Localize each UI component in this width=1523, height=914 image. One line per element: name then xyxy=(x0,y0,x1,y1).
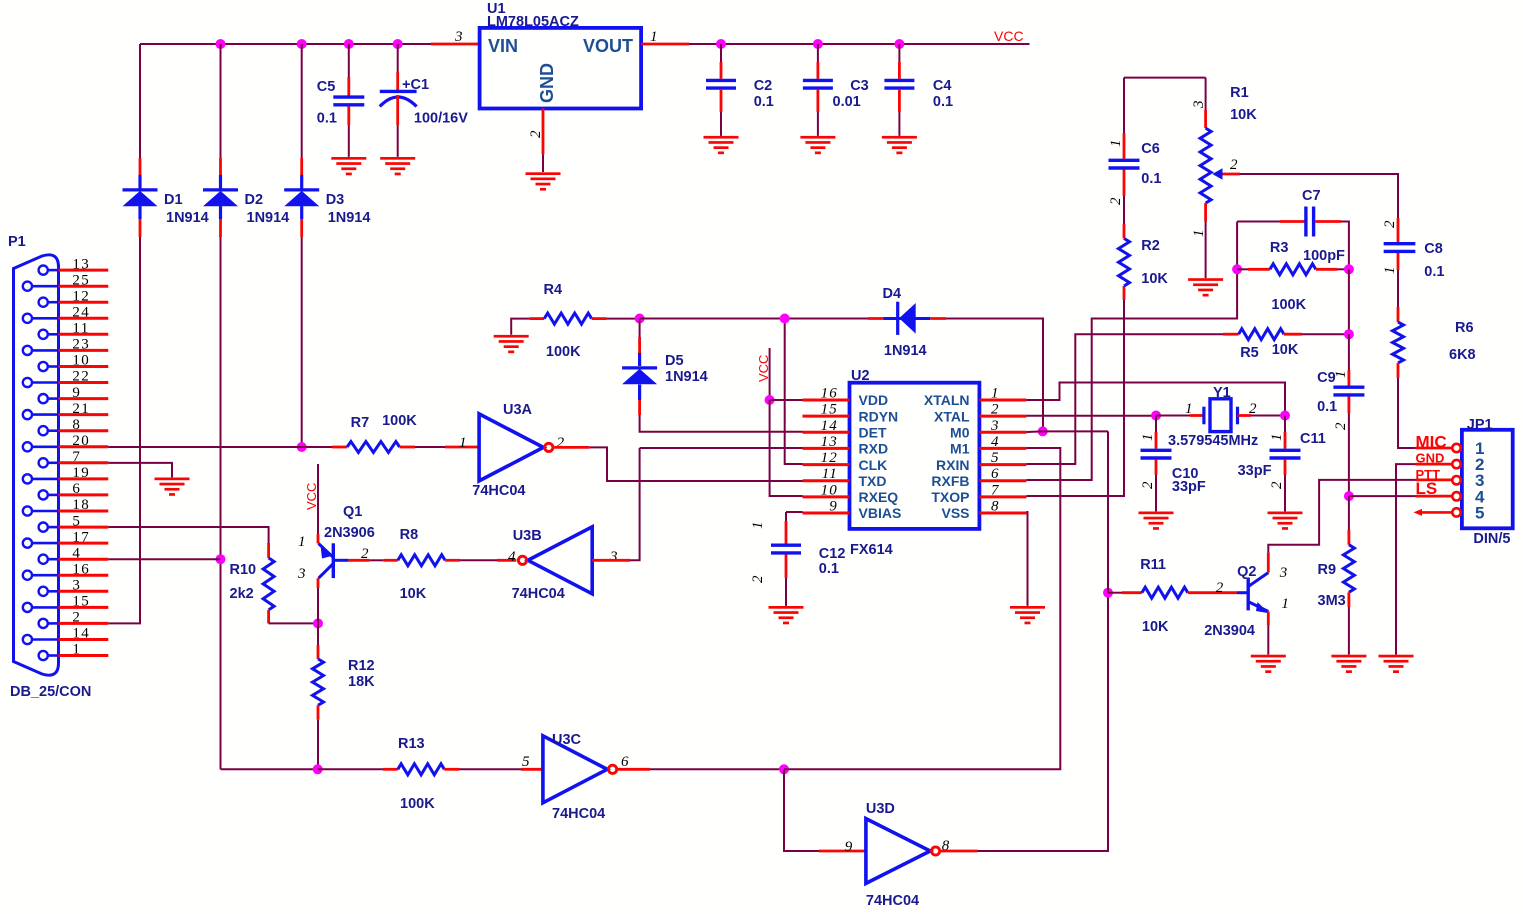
svg-text:3: 3 xyxy=(1279,565,1289,581)
svg-text:C3: C3 xyxy=(850,78,869,94)
svg-text:100K: 100K xyxy=(546,344,581,360)
junction Q1 collector node xyxy=(313,618,323,628)
svg-text:74HC04: 74HC04 xyxy=(512,586,565,602)
wire crystal left to C10 xyxy=(1155,416,1157,449)
wire C9 to LS node xyxy=(1348,397,1351,497)
Q1 pin number 2 xyxy=(361,546,370,562)
svg-text:1: 1 xyxy=(750,520,766,529)
resistor R3 xyxy=(1270,264,1316,275)
svg-text:R2: R2 xyxy=(1141,238,1160,254)
C10 pin number 1 xyxy=(1140,432,1156,441)
inverter U3D xyxy=(866,819,940,884)
U3C part label 74HC04 xyxy=(552,806,605,822)
C9 pin number 2 xyxy=(1333,421,1349,430)
svg-text:D4: D4 xyxy=(883,286,902,302)
P1 value label DB_25/CON xyxy=(10,684,91,700)
svg-text:R3: R3 xyxy=(1270,240,1289,256)
svg-text:VIN: VIN xyxy=(488,36,518,56)
svg-text:2: 2 xyxy=(750,574,766,583)
resistor R12 xyxy=(313,659,324,705)
wire JP1 pin5 stub xyxy=(1414,509,1452,516)
svg-text:D3: D3 xyxy=(326,192,345,208)
wire VCC input top rail xyxy=(140,43,431,45)
svg-text:CLK: CLK xyxy=(859,457,888,473)
svg-text:1N914: 1N914 xyxy=(665,369,708,385)
svg-text:19: 19 xyxy=(72,465,90,481)
wire R10 to Q1 node xyxy=(269,622,318,624)
wire node to R13 xyxy=(318,768,398,770)
svg-text:C12: C12 xyxy=(819,546,846,562)
R1 designator label xyxy=(1230,85,1249,101)
wire D5 anode stub xyxy=(638,385,641,416)
wire RXD to U3B column xyxy=(640,447,803,449)
svg-text:7: 7 xyxy=(72,449,81,465)
svg-text:VDD: VDD xyxy=(859,392,889,408)
svg-text:2: 2 xyxy=(991,402,1000,418)
resistor R10 xyxy=(263,543,274,623)
svg-text:11: 11 xyxy=(72,321,89,337)
Q2 value label 2N3904 xyxy=(1204,623,1255,639)
svg-text:0.1: 0.1 xyxy=(754,94,774,110)
wire C6 to top rail xyxy=(1123,78,1126,159)
D5 designator label xyxy=(665,353,684,369)
resistor R6 xyxy=(1393,322,1404,363)
capacitor C10 xyxy=(1141,450,1172,458)
svg-text:LM78L05ACZ: LM78L05ACZ xyxy=(487,14,579,30)
R7 designator label xyxy=(351,415,370,431)
wire below D1 xyxy=(138,206,141,237)
svg-text:100pF: 100pF xyxy=(1303,248,1345,264)
svg-text:2: 2 xyxy=(1382,219,1398,228)
wire VSS to ground xyxy=(1026,512,1027,606)
svg-text:TXD: TXD xyxy=(859,473,887,489)
svg-text:2k2: 2k2 xyxy=(230,586,254,602)
U2 designator label xyxy=(851,368,870,384)
svg-text:1: 1 xyxy=(1382,265,1398,274)
svg-text:R8: R8 xyxy=(400,527,419,543)
svg-text:Q2: Q2 xyxy=(1237,564,1256,580)
svg-text:16: 16 xyxy=(72,561,90,577)
svg-text:R10: R10 xyxy=(230,562,257,578)
svg-text:10K: 10K xyxy=(1141,271,1168,287)
C1 designator label +C1 xyxy=(402,77,429,93)
R10 designator label xyxy=(230,562,257,578)
ground C12 xyxy=(769,606,804,624)
svg-text:VCC: VCC xyxy=(304,483,319,510)
junction C2 on VCC rail xyxy=(716,39,726,49)
svg-text:P1: P1 xyxy=(8,234,26,250)
svg-text:R7: R7 xyxy=(351,415,370,431)
junction C1 on top rail xyxy=(393,39,403,49)
ground JP1 xyxy=(1379,655,1414,673)
svg-text:LS: LS xyxy=(1416,479,1438,498)
svg-text:1N914: 1N914 xyxy=(166,210,209,226)
wire R5 node to C9 xyxy=(1348,334,1350,385)
junction R5 right node xyxy=(1344,329,1354,339)
ground Q2 xyxy=(1251,655,1286,673)
P1 designator label xyxy=(8,234,26,250)
resistor R2 xyxy=(1119,238,1130,286)
C9 pin number 1 xyxy=(1333,369,1349,378)
wire Q1 collector down xyxy=(317,578,320,623)
svg-text:6: 6 xyxy=(991,466,1000,482)
svg-text:RXEQ: RXEQ xyxy=(859,489,899,505)
svg-text:U2: U2 xyxy=(851,368,870,384)
svg-text:3: 3 xyxy=(297,566,307,582)
svg-text:1: 1 xyxy=(1108,138,1124,147)
wire U3C output xyxy=(617,768,784,771)
ground C4 xyxy=(882,136,917,154)
inverter U3C xyxy=(543,736,617,803)
svg-text:0.1: 0.1 xyxy=(317,111,337,127)
svg-text:1: 1 xyxy=(72,642,81,658)
junction D3 column on top rail xyxy=(297,39,307,49)
resistor R11 xyxy=(1142,587,1188,598)
resistor R7 xyxy=(347,442,400,453)
D1 designator label xyxy=(164,192,183,208)
svg-text:16: 16 xyxy=(821,386,838,402)
wire C2 to ground xyxy=(720,90,723,136)
svg-text:C5: C5 xyxy=(317,79,336,95)
regulator U1 box xyxy=(480,28,641,109)
svg-text:17: 17 xyxy=(72,529,90,545)
resistor R13 xyxy=(398,764,445,775)
U3A pin number 1 xyxy=(459,435,468,451)
Q1 pin number 3 xyxy=(297,566,307,582)
wire R7 to U3A input xyxy=(400,446,480,449)
D3 designator label xyxy=(326,192,345,208)
svg-text:1: 1 xyxy=(1269,432,1285,441)
wire VDD node to pin16 xyxy=(770,399,803,401)
svg-text:2: 2 xyxy=(1140,480,1156,489)
U3C pin number 6 xyxy=(621,754,630,770)
wire U3D output to R11 node xyxy=(941,593,1108,851)
svg-text:1N914: 1N914 xyxy=(884,343,927,359)
svg-text:R1: R1 xyxy=(1230,85,1249,101)
R6 value label xyxy=(1449,347,1476,363)
svg-text:74HC04: 74HC04 xyxy=(866,893,919,909)
wire rail to D2 xyxy=(220,44,222,190)
svg-text:2N3906: 2N3906 xyxy=(324,525,375,541)
svg-text:C6: C6 xyxy=(1141,141,1160,157)
wire XTALN to crystal right xyxy=(1026,383,1285,416)
C3 value label xyxy=(833,94,861,110)
wire C12 to ground xyxy=(785,555,788,606)
wire M0 node to pin3 xyxy=(1026,430,1042,433)
ground U1 xyxy=(526,172,561,190)
svg-text:1N914: 1N914 xyxy=(247,210,290,226)
svg-text:23: 23 xyxy=(72,337,90,353)
D2 designator label xyxy=(245,192,264,208)
svg-text:C4: C4 xyxy=(933,78,952,94)
svg-text:Y1: Y1 xyxy=(1213,385,1231,401)
R5 designator label xyxy=(1240,345,1259,361)
wire R8 to U3B output xyxy=(445,559,516,562)
C11 designator label xyxy=(1300,431,1326,447)
wire VCC to C4 xyxy=(898,44,900,79)
wire VCC to C2 xyxy=(720,44,722,79)
junction C3 on VCC rail xyxy=(813,39,823,49)
U2 pin stubs xyxy=(803,400,1027,513)
wire rail to D1 xyxy=(139,44,141,190)
svg-text:13: 13 xyxy=(821,434,838,450)
svg-text:3: 3 xyxy=(72,578,81,594)
svg-text:1: 1 xyxy=(298,534,307,550)
svg-text:RXFB: RXFB xyxy=(931,473,969,489)
wire R1 wiper to C8 xyxy=(1223,174,1399,242)
wire C10 to ground xyxy=(1155,460,1158,512)
C11 value label 33pF xyxy=(1238,463,1272,479)
C10 pin number 2 xyxy=(1140,480,1156,489)
svg-text:3: 3 xyxy=(454,29,464,45)
wire R11 node up to M0 xyxy=(1107,431,1109,592)
wire rail to C5 xyxy=(348,44,350,96)
R9 designator label xyxy=(1318,562,1337,578)
transistor Q2 xyxy=(1248,573,1269,614)
svg-text:100/16V: 100/16V xyxy=(414,111,468,127)
C7 designator label xyxy=(1302,188,1321,204)
svg-text:R11: R11 xyxy=(1140,557,1166,573)
capacitor C7 xyxy=(1306,207,1314,237)
GND net label xyxy=(1416,451,1445,466)
wire R7 left stub xyxy=(332,446,347,449)
svg-text:0.1: 0.1 xyxy=(933,94,953,110)
C3 designator label xyxy=(850,78,869,94)
ground C1 xyxy=(380,157,415,175)
wire D2 column corner to R12 node xyxy=(221,768,318,770)
wire Q2 collector to PTT xyxy=(1268,480,1452,573)
diode D5 xyxy=(622,368,657,384)
wire Q1 base to R8 xyxy=(348,559,397,562)
svg-text:21: 21 xyxy=(72,401,90,417)
U1 value label LM78L05ACZ xyxy=(487,14,579,30)
svg-text:9: 9 xyxy=(72,385,81,401)
C12 pin number 1 xyxy=(750,520,766,529)
wire P1 pin5 to R10 xyxy=(108,527,268,543)
C12 pin number 2 xyxy=(750,574,766,583)
wire top right rail xyxy=(1124,77,1206,79)
wire U3B input from RXD xyxy=(592,448,639,560)
R13 value label xyxy=(400,796,435,812)
R7 value label xyxy=(382,413,417,429)
svg-text:1: 1 xyxy=(1140,432,1156,441)
svg-text:9: 9 xyxy=(845,839,854,855)
svg-text:DET: DET xyxy=(859,425,887,441)
junction CLK column node xyxy=(780,314,790,324)
svg-text:D5: D5 xyxy=(665,353,684,369)
svg-text:R6: R6 xyxy=(1455,320,1474,336)
svg-text:+C1: +C1 xyxy=(402,77,429,93)
junction U3C output node xyxy=(779,764,789,774)
wire D4 to M0 column xyxy=(946,319,1043,432)
junction R12 R13 node xyxy=(313,764,323,774)
C9 value label xyxy=(1317,399,1337,415)
svg-text:C7: C7 xyxy=(1302,188,1321,204)
R9 value label xyxy=(1318,593,1346,609)
C12 value label xyxy=(819,561,839,577)
C4 value label xyxy=(933,94,953,110)
svg-text:6: 6 xyxy=(72,481,81,497)
wire VOUT pin stub red xyxy=(641,43,689,46)
svg-text:C9: C9 xyxy=(1317,370,1336,386)
capacitor C12 xyxy=(771,545,801,553)
svg-text:1: 1 xyxy=(991,386,1000,402)
D5 value label 1N914 xyxy=(665,369,708,385)
wire R6 to MIC xyxy=(1398,363,1452,448)
svg-text:1: 1 xyxy=(459,435,468,451)
svg-text:100K: 100K xyxy=(382,413,417,429)
svg-text:74HC04: 74HC04 xyxy=(552,806,605,822)
svg-text:8: 8 xyxy=(991,499,1000,515)
wire M0 node to R11 column xyxy=(1043,430,1108,432)
C8 pin number 2 xyxy=(1382,219,1398,228)
wire R4 ground stub xyxy=(511,319,529,335)
capacitor C6 xyxy=(1109,160,1140,168)
ground C2 xyxy=(704,136,739,154)
wire VCC to C3 xyxy=(817,44,819,79)
C9 designator label xyxy=(1317,370,1336,386)
R5 value label xyxy=(1272,342,1299,358)
wire JP1 GND pin to ground xyxy=(1396,464,1452,654)
svg-text:2N3904: 2N3904 xyxy=(1204,623,1255,639)
wire rail to C1 xyxy=(397,44,399,91)
svg-text:U3D: U3D xyxy=(866,801,895,817)
wire Q2 emitter to ground xyxy=(1267,612,1270,655)
wire RXIN to R5 xyxy=(1026,334,1238,464)
U1 pin number 1 xyxy=(650,29,659,45)
inverter U3B xyxy=(518,527,592,594)
ground R1 xyxy=(1188,278,1223,296)
VCC net label xyxy=(994,28,1024,44)
R6 designator label xyxy=(1455,320,1474,336)
U3D pin number 9 xyxy=(845,839,854,855)
U1 pin name VOUT xyxy=(583,36,633,56)
wire P1 pin4 to D2 column xyxy=(108,558,220,560)
svg-text:2: 2 xyxy=(1249,401,1258,417)
capacitor C1 electrolytic xyxy=(380,91,417,106)
wire node to U3D input xyxy=(784,769,866,851)
C1 value label xyxy=(414,111,468,127)
diode D3 xyxy=(284,190,319,206)
wire LS node to R9 xyxy=(1348,496,1350,545)
wire R12 to R13 row xyxy=(317,705,320,769)
junction D5 node xyxy=(635,314,645,324)
resistor R9 xyxy=(1343,545,1354,593)
svg-text:22: 22 xyxy=(72,369,90,385)
capacitor C8 xyxy=(1384,244,1416,252)
ground P1 pin7 xyxy=(155,478,190,496)
Q2 pin number 3 xyxy=(1279,565,1289,581)
JP1 designator label xyxy=(1467,417,1493,433)
wire crystal right to C11 xyxy=(1284,416,1286,449)
svg-text:U3A: U3A xyxy=(503,402,533,418)
svg-text:0.1: 0.1 xyxy=(819,561,839,577)
D2 value label 1N914 xyxy=(247,210,290,226)
wire CLK from D4 node xyxy=(785,319,803,465)
wire C1 to ground xyxy=(396,95,399,157)
wire C4 to ground xyxy=(898,90,901,136)
svg-text:2: 2 xyxy=(1108,196,1124,205)
Q2 pin number 1 xyxy=(1281,596,1290,612)
svg-text:GND: GND xyxy=(1416,451,1445,466)
junction D3 R7 row xyxy=(297,442,307,452)
C6 designator label xyxy=(1141,141,1160,157)
U3D designator label xyxy=(866,801,895,817)
Q1 pin number 1 xyxy=(298,534,307,550)
svg-text:9: 9 xyxy=(829,499,838,515)
D4 designator label xyxy=(883,286,902,302)
svg-text:DB_25/CON: DB_25/CON xyxy=(10,684,91,700)
junction R3 left node xyxy=(1232,264,1242,274)
svg-text:MIC: MIC xyxy=(1416,433,1447,452)
svg-text:3: 3 xyxy=(609,549,619,565)
ground C11 xyxy=(1268,512,1303,530)
svg-text:1: 1 xyxy=(1185,401,1194,417)
wire C7 row left xyxy=(1237,221,1305,223)
svg-text:13: 13 xyxy=(72,256,90,272)
wire D3 column xyxy=(301,237,303,447)
svg-text:RXD: RXD xyxy=(859,441,889,457)
potentiometer R1 xyxy=(1200,128,1222,203)
ground R9 xyxy=(1331,655,1366,673)
U3A part label 74HC04 xyxy=(472,483,525,499)
svg-text:C8: C8 xyxy=(1424,241,1443,257)
R1 pin number 3 xyxy=(1191,99,1207,109)
svg-text:GND: GND xyxy=(537,63,557,103)
R11 designator label xyxy=(1140,557,1166,573)
U3A designator label xyxy=(503,402,533,418)
wire node to R12 xyxy=(317,623,319,659)
svg-text:VSS: VSS xyxy=(941,505,969,521)
wire below D2 xyxy=(219,206,222,237)
C12 designator label xyxy=(819,546,846,562)
wire VCC rail xyxy=(689,43,1030,45)
C4 designator label xyxy=(933,78,952,94)
C2 value label xyxy=(754,94,774,110)
D1 value label 1N914 xyxy=(166,210,209,226)
svg-text:U3C: U3C xyxy=(552,732,582,748)
U2 pin numbers xyxy=(821,386,1000,515)
svg-text:M1: M1 xyxy=(950,441,970,457)
MIC net label xyxy=(1416,433,1447,452)
svg-text:M0: M0 xyxy=(950,425,970,441)
junction D2 pin4 xyxy=(216,554,226,564)
R11 value label xyxy=(1142,619,1169,635)
R3 value label xyxy=(1271,297,1306,313)
D4 value label 1N914 xyxy=(884,343,927,359)
ground VSS xyxy=(1010,606,1045,624)
svg-text:100K: 100K xyxy=(400,796,435,812)
junction crystal right node xyxy=(1280,411,1290,421)
svg-text:R12: R12 xyxy=(348,658,375,674)
capacitor C9 xyxy=(1333,387,1364,395)
diode D1 xyxy=(123,190,158,206)
svg-text:33pF: 33pF xyxy=(1172,479,1206,495)
wire C11 to ground xyxy=(1284,460,1287,512)
svg-text:0.01: 0.01 xyxy=(833,94,861,110)
U1 pin number 3 xyxy=(454,29,464,45)
diode D2 xyxy=(203,190,238,206)
svg-text:D2: D2 xyxy=(245,192,264,208)
transistor Q1 xyxy=(319,543,349,578)
svg-text:4: 4 xyxy=(72,545,81,561)
svg-text:2: 2 xyxy=(1230,157,1239,173)
C11 pin number 2 xyxy=(1269,480,1285,489)
U3B pin number 4 xyxy=(508,549,517,565)
R4 designator label xyxy=(544,282,563,298)
svg-text:JP1: JP1 xyxy=(1467,417,1493,433)
svg-text:10K: 10K xyxy=(1230,107,1257,123)
